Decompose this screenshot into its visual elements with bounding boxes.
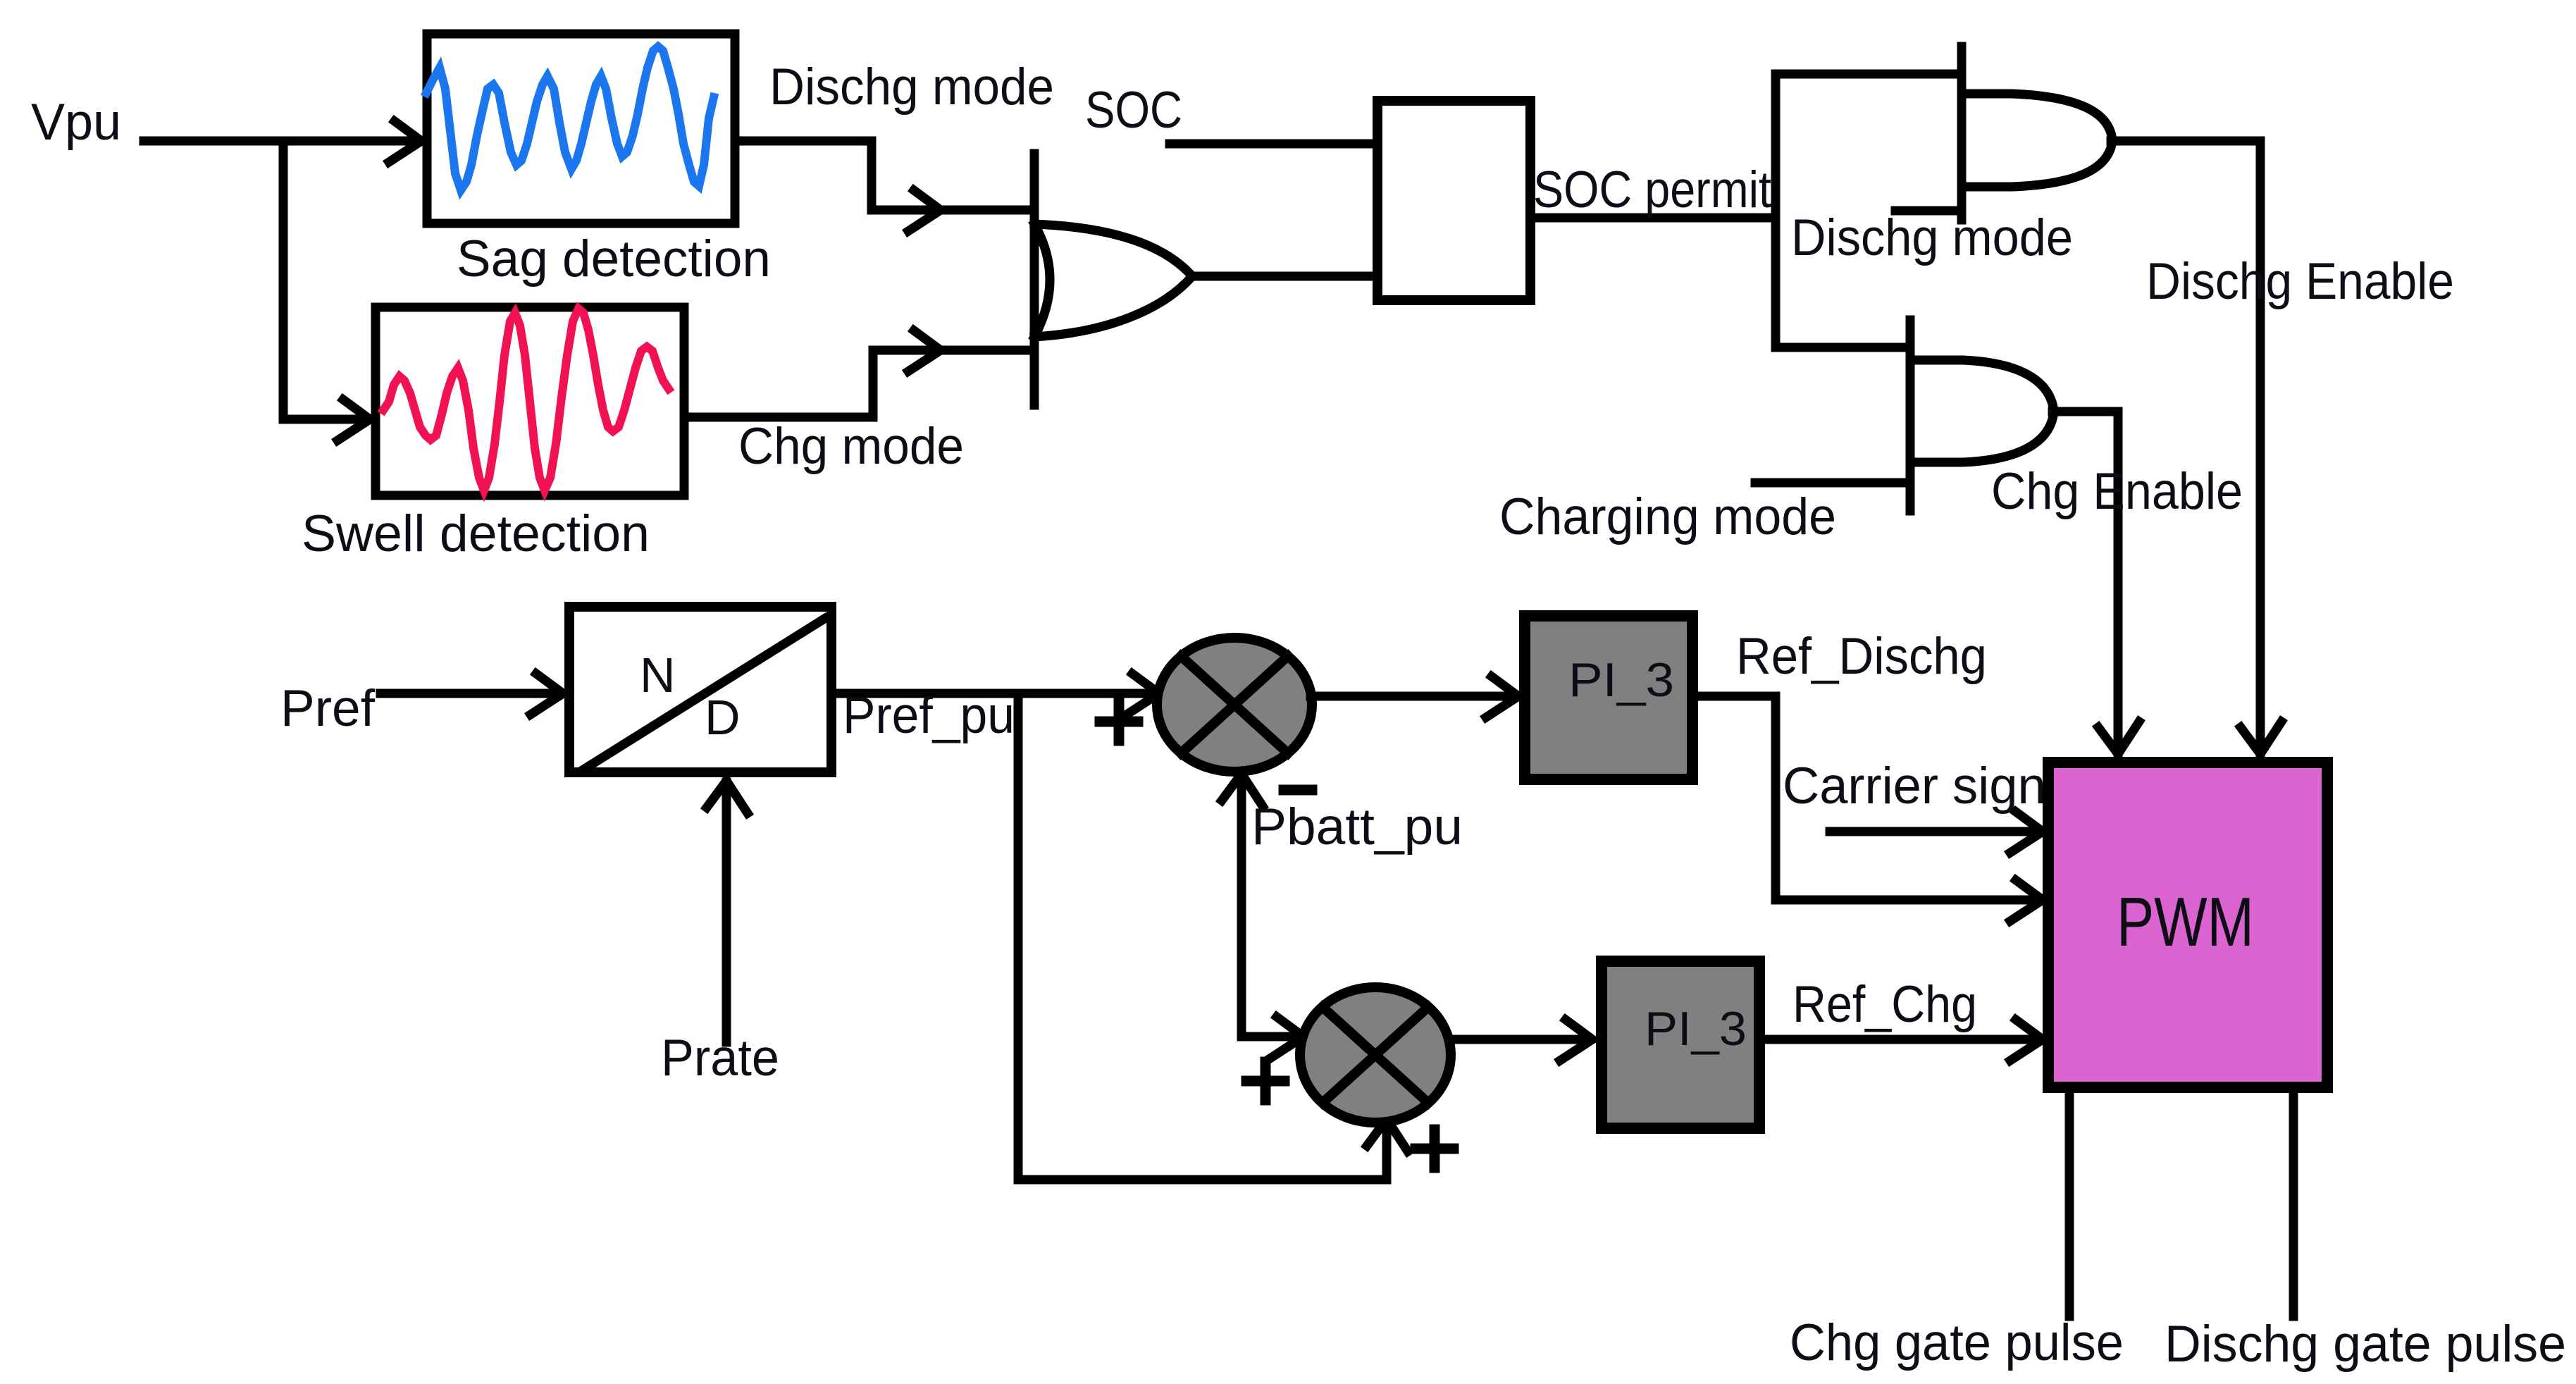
node SOC permit branch xyxy=(1771,74,1781,347)
svg-text:Dischg mode: Dischg mode xyxy=(769,58,1054,116)
svg-text:Dischg mode: Dischg mode xyxy=(1791,209,2073,266)
block Swell detection xyxy=(376,307,684,495)
svg-text:Chg gate pulse: Chg gate pulse xyxy=(1790,1314,2124,1371)
wire Swell output Chg mode xyxy=(684,350,1030,417)
wire Prate input xyxy=(722,782,731,1042)
svg-text:Ref_Dischg: Ref_Dischg xyxy=(1736,628,1987,685)
wire Chg Enable xyxy=(2052,412,2118,753)
wire SOC input xyxy=(1170,140,1375,149)
wire Ref_Chg xyxy=(1765,1035,2039,1044)
wire Sag output Dischg mode xyxy=(735,141,1030,210)
wire Dischg gate pulse xyxy=(2289,1093,2298,1316)
wire Vpu branch to Swell detection xyxy=(283,141,368,419)
wire Ref_Dischg xyxy=(1692,696,2039,900)
AND gate U3 charge xyxy=(1906,320,1915,511)
summer S1 xyxy=(1157,638,1312,772)
stub Dischg mode input to U2 xyxy=(1895,206,1962,216)
wire Carrier signal xyxy=(1830,827,2039,836)
svg-text:Dischg gate pulse: Dischg gate pulse xyxy=(2165,1316,2566,1373)
svg-text:Pref: Pref xyxy=(280,680,376,737)
block PI_3 discharge xyxy=(1525,616,1692,779)
block PI_3 charge xyxy=(1602,961,1759,1128)
wire to AND gate U3 top input xyxy=(1776,343,1910,352)
wire summer S1 to PI_3 xyxy=(1311,692,1515,701)
svg-text:Pref_pu: Pref_pu xyxy=(843,687,1015,744)
svg-text:SOC permit: SOC permit xyxy=(1533,161,1771,218)
wire to AND gate U2 top input xyxy=(1776,70,1962,79)
node feedback junction and bottom wire xyxy=(1018,693,1387,1180)
block PWM xyxy=(2048,762,2327,1087)
block Sag detection xyxy=(427,34,735,223)
wire Pbatt_pu xyxy=(1241,775,1301,1037)
svg-text:D: D xyxy=(705,690,741,745)
svg-text:Charging mode: Charging mode xyxy=(1499,488,1836,545)
svg-text:PI_3: PI_3 xyxy=(1645,1002,1747,1056)
wire Chg gate pulse xyxy=(2065,1093,2074,1316)
svg-text:Ref_Chg: Ref_Chg xyxy=(1792,976,1977,1033)
wire SOC permit output xyxy=(1530,214,1776,223)
svg-text:Dischg Enable: Dischg Enable xyxy=(2146,253,2454,310)
svg-text:Prate: Prate xyxy=(661,1030,779,1087)
block SOC permit logic xyxy=(1377,101,1530,300)
svg-text:PI_3: PI_3 xyxy=(1568,653,1674,707)
svg-text:Pbatt_pu: Pbatt_pu xyxy=(1251,798,1463,855)
OR gate U1 xyxy=(1030,154,1039,405)
wire Charging mode stub xyxy=(1755,478,1910,488)
svg-text:Swell detection: Swell detection xyxy=(302,505,650,562)
svg-text:PWM: PWM xyxy=(2117,883,2254,960)
label plus at summer S1 left xyxy=(1100,703,1138,741)
svg-text:Chg Enable: Chg Enable xyxy=(1991,463,2243,520)
wire Vpu to Sag detection xyxy=(144,137,420,146)
svg-text:Sag detection: Sag detection xyxy=(457,230,771,288)
svg-text:SOC: SOC xyxy=(1085,82,1182,139)
wire summer S2 to PI_3 xyxy=(1449,1035,1589,1044)
label minus at summer S1 bottom xyxy=(1284,785,1312,796)
svg-text:Vpu: Vpu xyxy=(31,94,121,151)
svg-text:Carrier signal: Carrier signal xyxy=(1783,758,2086,815)
wire Pref_pu xyxy=(831,689,1156,698)
wire Pref input xyxy=(380,689,562,698)
summer S2 xyxy=(1300,987,1451,1123)
block divider N/D xyxy=(569,607,831,772)
wire Dischg Enable xyxy=(2111,141,2260,753)
AND gate U2 discharge xyxy=(1957,47,1967,220)
wire OR gate output xyxy=(1191,272,1375,281)
label plus at summer S2 bottom xyxy=(1416,1130,1454,1168)
svg-text:Chg mode: Chg mode xyxy=(738,418,964,475)
label plus at summer S2 left xyxy=(1246,1062,1284,1100)
svg-text:N: N xyxy=(640,648,676,703)
